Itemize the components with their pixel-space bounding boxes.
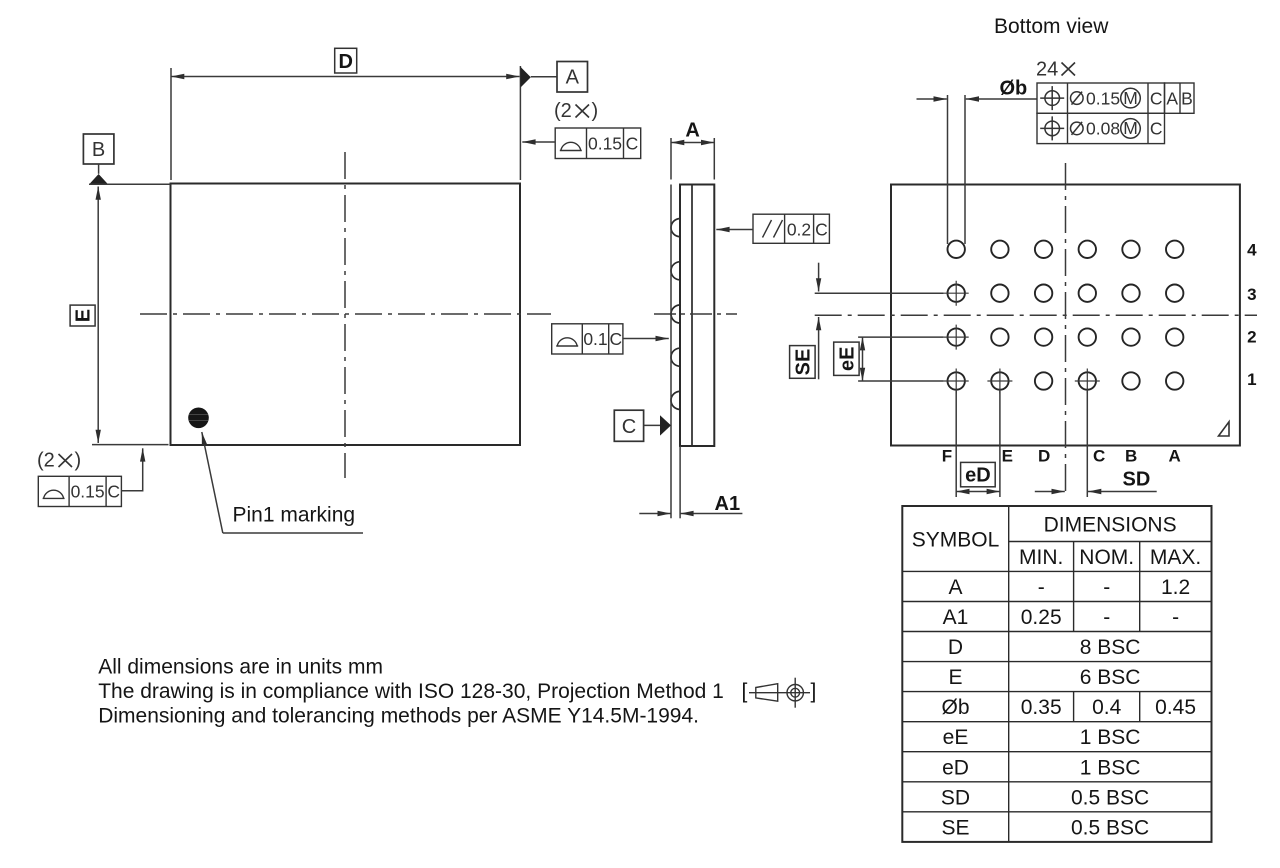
datum A triangle xyxy=(520,67,530,88)
ball bumps xyxy=(671,219,680,410)
eD dimension xyxy=(956,491,1000,493)
svg-text:B: B xyxy=(1181,88,1193,108)
pin1 marking dot xyxy=(188,408,209,429)
column extension lines below balls xyxy=(956,390,1087,497)
datum C box xyxy=(614,410,643,441)
svg-text:MIN.: MIN. xyxy=(1019,546,1063,569)
datum B triangle xyxy=(89,174,108,184)
svg-text:F: F xyxy=(942,447,952,466)
svg-text:D: D xyxy=(338,51,352,73)
svg-text:24: 24 xyxy=(1036,59,1058,81)
A1 extension line xyxy=(679,446,681,518)
feature control frame 0.15 C (bottom left) xyxy=(38,476,121,506)
horizontal center line xyxy=(140,313,551,315)
svg-text:Bottom view: Bottom view xyxy=(994,15,1109,38)
svg-text:MAX.: MAX. xyxy=(1150,546,1201,569)
svg-text:B: B xyxy=(92,139,105,161)
svg-text:1 BSC: 1 BSC xyxy=(1080,756,1141,779)
D dimension line xyxy=(171,76,520,78)
position symbols xyxy=(1040,86,1064,140)
svg-text:M: M xyxy=(1123,88,1138,108)
svg-text:SYMBOL: SYMBOL xyxy=(912,529,1000,552)
svg-text:D: D xyxy=(948,636,963,659)
svg-text:1: 1 xyxy=(1247,370,1256,389)
svg-text:E: E xyxy=(948,666,962,689)
svg-text:SD: SD xyxy=(941,786,970,809)
SE boxed label xyxy=(790,346,816,379)
profile symbol xyxy=(556,338,578,346)
svg-text:1 BSC: 1 BSC xyxy=(1080,726,1141,749)
svg-text:8 BSC: 8 BSC xyxy=(1080,636,1141,659)
svg-text:0.5 BSC: 0.5 BSC xyxy=(1071,786,1149,809)
D dimension extension lines xyxy=(171,66,520,180)
datum B box xyxy=(83,134,114,164)
svg-text:A: A xyxy=(1169,447,1181,466)
svg-text:C: C xyxy=(1093,447,1105,466)
svg-text:Øb: Øb xyxy=(1000,78,1028,100)
projection method symbol xyxy=(749,678,810,708)
profile symbol xyxy=(43,490,65,498)
svg-text:The drawing is in compliance w: The drawing is in compliance with ISO 12… xyxy=(98,680,724,703)
datum B stem xyxy=(98,164,100,174)
datum A leader xyxy=(531,76,557,78)
row extension lines from balls xyxy=(815,293,944,381)
D boxed label xyxy=(335,48,357,73)
position tolerance frames xyxy=(1037,83,1194,144)
leader from // frame to body xyxy=(716,229,753,231)
svg-text:DIMENSIONS: DIMENSIONS xyxy=(1044,514,1177,537)
table header text xyxy=(912,514,1202,570)
diameter symbols xyxy=(1071,92,1084,135)
svg-text:eD: eD xyxy=(942,756,969,779)
A dimension line xyxy=(671,142,714,144)
column labels xyxy=(942,447,1181,466)
profile frame 0.1 C xyxy=(552,324,623,354)
svg-text:eD: eD xyxy=(965,465,991,487)
M modifier circles xyxy=(1121,88,1141,138)
svg-text:Øb: Øb xyxy=(941,696,969,719)
svg-text:0.15: 0.15 xyxy=(588,134,622,154)
svg-text:D: D xyxy=(1038,447,1050,466)
svg-text:E: E xyxy=(1002,447,1013,466)
eE boxed label xyxy=(834,342,859,375)
svg-text:A: A xyxy=(566,67,580,89)
Ob extension lines xyxy=(948,95,966,244)
inner seating plane line xyxy=(691,185,693,447)
svg-text:6 BSC: 6 BSC xyxy=(1080,666,1141,689)
svg-text:eE: eE xyxy=(943,726,969,749)
svg-text:[: [ xyxy=(742,680,748,703)
svg-text:C: C xyxy=(626,134,639,154)
svg-text:C: C xyxy=(609,329,622,349)
svg-text:]: ] xyxy=(811,680,817,703)
svg-text:C: C xyxy=(815,220,828,240)
svg-text:C: C xyxy=(1150,88,1163,108)
row labels xyxy=(1247,241,1257,390)
datum A box xyxy=(557,62,588,93)
svg-text:E: E xyxy=(73,309,95,322)
A1 dimension lines xyxy=(639,513,671,515)
svg-text:-: - xyxy=(1103,576,1110,599)
svg-text:NOM.: NOM. xyxy=(1079,546,1134,569)
svg-text:-: - xyxy=(1038,576,1045,599)
eD boxed label xyxy=(961,462,996,486)
svg-text:4: 4 xyxy=(1247,241,1257,260)
leader from 0.1 C frame to ball line xyxy=(623,338,669,340)
SD dimension xyxy=(1035,491,1065,493)
horizontal center line xyxy=(815,314,1257,316)
profile symbol xyxy=(560,142,582,150)
leader arrow from 0.15 C frame to extension line xyxy=(522,141,555,143)
svg-text:SE: SE xyxy=(941,816,969,839)
datum C leader xyxy=(644,424,660,426)
svg-text:SE: SE xyxy=(792,349,814,376)
svg-text:(2: (2 xyxy=(554,100,572,122)
E dimension line xyxy=(97,187,99,444)
Ob dimension arrows xyxy=(917,98,947,100)
svg-text:-: - xyxy=(1103,606,1110,629)
crosshairs on located balls xyxy=(944,281,1100,394)
svg-text:0.25: 0.25 xyxy=(1021,606,1062,629)
table body text xyxy=(941,576,1196,839)
svg-text:0.45: 0.45 xyxy=(1155,696,1196,719)
svg-text:0.15: 0.15 xyxy=(71,482,105,502)
svg-text:A: A xyxy=(685,120,699,142)
svg-text:0.08: 0.08 xyxy=(1086,119,1120,139)
svg-text:1.2: 1.2 xyxy=(1161,576,1190,599)
svg-text:A1: A1 xyxy=(943,606,969,629)
SE dimension xyxy=(818,263,820,292)
vertical center line xyxy=(1065,163,1067,497)
bottom view outline xyxy=(891,185,1240,446)
svg-text:Dimensioning and tolerancing m: Dimensioning and tolerancing methods per… xyxy=(98,705,699,728)
svg-text:0.15: 0.15 xyxy=(1086,88,1120,108)
svg-text:): ) xyxy=(75,450,82,472)
svg-text:0.4: 0.4 xyxy=(1092,696,1122,719)
svg-text:): ) xyxy=(592,100,599,122)
svg-text:0.2: 0.2 xyxy=(787,220,811,240)
right extension line xyxy=(713,138,715,180)
svg-text:2: 2 xyxy=(1247,328,1256,347)
bottom edge extension line xyxy=(92,444,169,446)
svg-text:(2: (2 xyxy=(37,450,55,472)
svg-text:A: A xyxy=(948,576,962,599)
svg-text:Pin1 marking: Pin1 marking xyxy=(233,504,356,527)
svg-text:C: C xyxy=(107,482,120,502)
eE dimension xyxy=(862,337,864,381)
svg-text:C: C xyxy=(1150,119,1163,139)
svg-text:A: A xyxy=(1166,88,1178,108)
svg-text:3: 3 xyxy=(1247,285,1256,304)
svg-text:SD: SD xyxy=(1123,469,1151,491)
svg-text:A1: A1 xyxy=(715,493,741,515)
datum B base line xyxy=(89,183,171,185)
package body outline xyxy=(171,184,521,446)
svg-text:B: B xyxy=(1125,447,1137,466)
leader from frame up to extension line xyxy=(121,450,142,491)
svg-text:0.1: 0.1 xyxy=(583,329,607,349)
svg-text:C: C xyxy=(622,416,636,438)
left tangent extension line xyxy=(670,138,672,518)
ball grid xyxy=(948,241,1184,390)
svg-text:All dimensions are in units mm: All dimensions are in units mm xyxy=(98,656,383,679)
corner A1 triangle xyxy=(1219,422,1230,436)
datum C triangle xyxy=(660,415,671,435)
side view body xyxy=(680,185,714,447)
svg-text:-: - xyxy=(1172,606,1179,629)
svg-text:M: M xyxy=(1123,118,1138,138)
vertical center line xyxy=(344,152,346,478)
svg-text:eE: eE xyxy=(836,347,858,371)
feature control frame 0.15 C (top right) xyxy=(555,128,641,159)
E boxed label xyxy=(70,305,95,326)
parallelism frame // 0.2 C xyxy=(753,214,829,243)
pin1 leader line xyxy=(202,432,223,533)
table grid xyxy=(902,506,1211,842)
side view center line xyxy=(654,313,737,315)
svg-text:0.5 BSC: 0.5 BSC xyxy=(1071,816,1149,839)
svg-text:0.35: 0.35 xyxy=(1021,696,1062,719)
